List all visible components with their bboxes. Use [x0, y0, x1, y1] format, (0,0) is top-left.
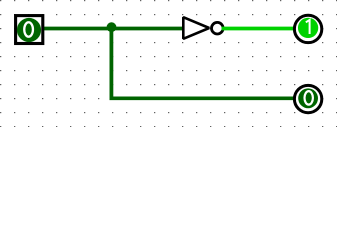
junction node	[107, 22, 117, 32]
wire from NOT gate output to output pin (value 1, bright green)	[222, 27, 295, 31]
wire vertical branch from junction down (value 0)	[110, 27, 114, 98]
NOT gate U1	[183, 17, 223, 39]
output pin P2 (value 1)	[294, 15, 321, 42]
output pin P3 (value 0)	[294, 85, 321, 112]
input pin P1 (value 0)	[16, 16, 43, 44]
wire from input pin to NOT gate (value 0, dark green)	[43, 27, 183, 31]
wire bottom horizontal to output pin (value 0)	[110, 96, 296, 100]
canvas background	[0, 0, 337, 127]
